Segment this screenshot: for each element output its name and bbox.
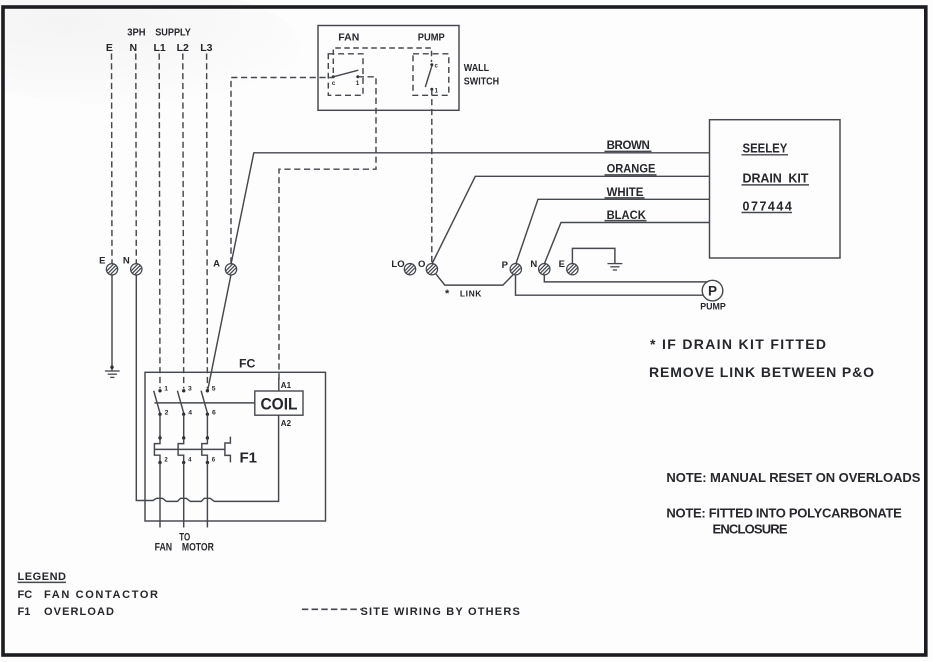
terminal N bbox=[131, 264, 142, 275]
svg-text:F1: F1 bbox=[240, 450, 258, 467]
svg-text:LEGEND: LEGEND bbox=[18, 571, 67, 583]
svg-text:3PH: 3PH bbox=[127, 26, 145, 38]
wire PUMP 1 to O dashed bbox=[431, 89, 433, 263]
legend dashed sample bbox=[302, 608, 361, 610]
terminal A bbox=[225, 264, 236, 275]
drain kit box bbox=[710, 120, 841, 258]
switch PUMP dashed box bbox=[413, 54, 449, 96]
wall switch enclosure bbox=[318, 26, 459, 111]
overload F1 symbol bbox=[225, 437, 231, 463]
svg-text:4: 4 bbox=[188, 410, 192, 417]
wire motor 1 bbox=[159, 463, 161, 528]
svg-text:F1: F1 bbox=[18, 606, 31, 618]
svg-text:6: 6 bbox=[212, 410, 216, 417]
svg-text:SUPPLY: SUPPLY bbox=[155, 26, 191, 38]
ground pump bbox=[608, 264, 623, 270]
svg-text:* IF DRAIN KIT FITTED: * IF DRAIN KIT FITTED bbox=[650, 336, 826, 352]
svg-text:E: E bbox=[99, 256, 105, 267]
wire A1 stub bbox=[278, 378, 280, 391]
wire ORANGE bbox=[432, 176, 710, 264]
wire A to pin 5 bbox=[208, 275, 231, 391]
wire L2 dashed bbox=[182, 54, 185, 389]
svg-text:PUMP: PUMP bbox=[418, 31, 445, 43]
wire E to ground 2 bbox=[572, 248, 615, 264]
svg-text:A1: A1 bbox=[281, 381, 292, 390]
svg-text:REMOVE LINK BETWEEN P&O: REMOVE LINK BETWEEN P&O bbox=[649, 364, 874, 380]
svg-text:P: P bbox=[708, 284, 717, 299]
svg-text:N: N bbox=[530, 259, 537, 270]
wire L1 dashed bbox=[158, 54, 161, 389]
coil U box bbox=[255, 391, 303, 415]
switch FAN contact bbox=[332, 75, 335, 78]
svg-text:L1: L1 bbox=[153, 42, 165, 54]
switch PUMP contact bbox=[430, 63, 433, 66]
svg-text:FAN CONTACTOR: FAN CONTACTOR bbox=[44, 589, 158, 601]
contactor FC box bbox=[145, 372, 326, 521]
terminal O bbox=[426, 264, 437, 275]
svg-text:COIL: COIL bbox=[261, 394, 298, 413]
svg-text:N: N bbox=[123, 256, 130, 267]
ground E bbox=[105, 371, 120, 377]
svg-text:P: P bbox=[502, 260, 509, 271]
svg-text:NOTE: MANUAL RESET ON OVERLOAD: NOTE: MANUAL RESET ON OVERLOADS bbox=[666, 470, 920, 485]
svg-text:N: N bbox=[130, 42, 138, 54]
wire A to FAN switch dashed bbox=[231, 78, 333, 264]
wire BLACK bbox=[544, 223, 709, 264]
svg-text:O: O bbox=[418, 259, 425, 270]
pump motor P bbox=[702, 280, 723, 301]
svg-text:PUMP: PUMP bbox=[700, 302, 726, 313]
wire switch coupling dashed bbox=[333, 48, 431, 73]
svg-text:SEELEY: SEELEY bbox=[743, 141, 788, 155]
wire E to ground bbox=[111, 275, 113, 371]
svg-text:L3: L3 bbox=[200, 42, 212, 54]
overload heater 3 bbox=[206, 436, 209, 439]
terminal E pump bbox=[567, 264, 578, 275]
wire E supply dashed bbox=[111, 54, 114, 264]
svg-text:WALL: WALL bbox=[464, 62, 490, 74]
overload heater 2 bbox=[182, 436, 185, 439]
wire FAN 1 to coil A1 dashed bbox=[279, 77, 376, 380]
wire motor 3 bbox=[206, 463, 208, 528]
wire motor 2 bbox=[183, 463, 185, 528]
svg-text:FC: FC bbox=[18, 589, 33, 601]
contact pole 2 bbox=[182, 389, 185, 392]
terminal LO bbox=[404, 264, 415, 275]
svg-text:SITE WIRING BY OTHERS: SITE WIRING BY OTHERS bbox=[361, 606, 520, 618]
contact pole 3 bbox=[206, 389, 209, 392]
wire P to pump bbox=[516, 275, 704, 296]
svg-text:BROWN: BROWN bbox=[607, 140, 650, 152]
svg-text:ENCLOSURE: ENCLOSURE bbox=[713, 521, 788, 536]
contact linkage bar bbox=[155, 402, 255, 404]
switch FAN dashed box bbox=[328, 54, 363, 96]
terminal E bbox=[106, 264, 117, 275]
wire N down bbox=[136, 275, 278, 502]
svg-text:E: E bbox=[559, 259, 565, 270]
svg-text:LINK: LINK bbox=[460, 288, 482, 298]
svg-text:MOTOR: MOTOR bbox=[182, 542, 214, 554]
svg-text:5: 5 bbox=[212, 386, 216, 393]
wire L3 dashed bbox=[206, 54, 209, 389]
svg-text:WHITE: WHITE bbox=[607, 187, 644, 199]
svg-text:FAN: FAN bbox=[338, 32, 359, 44]
svg-text:E: E bbox=[106, 42, 113, 54]
overload trip bar bbox=[154, 448, 225, 450]
terminal P bbox=[510, 264, 521, 275]
svg-text:3: 3 bbox=[188, 386, 192, 393]
svg-text:OVERLOAD: OVERLOAD bbox=[44, 606, 114, 618]
svg-text:FAN: FAN bbox=[155, 542, 173, 554]
svg-text:A: A bbox=[213, 259, 220, 270]
svg-text:DRAIN KIT: DRAIN KIT bbox=[743, 172, 809, 186]
terminal N pump bbox=[539, 264, 550, 275]
svg-text:SWITCH: SWITCH bbox=[464, 75, 499, 87]
overload heater 1 bbox=[158, 436, 161, 439]
wire WHITE bbox=[516, 199, 710, 264]
svg-text:FC: FC bbox=[239, 357, 256, 371]
svg-text:2: 2 bbox=[165, 410, 169, 417]
svg-text:NOTE: FITTED INTO POLYCARBONAT: NOTE: FITTED INTO POLYCARBONATE bbox=[666, 506, 902, 521]
svg-text:LO: LO bbox=[391, 259, 404, 270]
svg-text:*: * bbox=[445, 288, 450, 300]
wire link O to P bbox=[435, 273, 513, 285]
svg-text:L2: L2 bbox=[177, 42, 189, 54]
wire N to pump bbox=[544, 275, 706, 282]
wire BROWN bbox=[231, 153, 710, 264]
svg-text:ORANGE: ORANGE bbox=[607, 164, 656, 176]
contact pole 1 bbox=[158, 389, 161, 392]
svg-text:1: 1 bbox=[164, 386, 168, 393]
svg-text:A2: A2 bbox=[281, 419, 292, 428]
wire N supply dashed bbox=[135, 54, 138, 264]
